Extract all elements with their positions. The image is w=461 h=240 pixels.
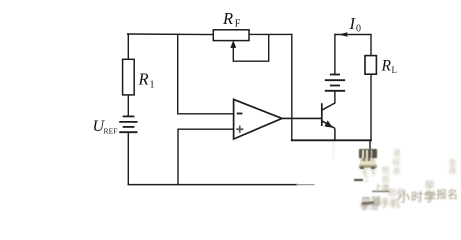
wire top rail left	[128, 33, 214, 36]
resistor RL	[365, 56, 376, 75]
svg-text:REF: REF	[104, 126, 118, 135]
svg-text:1: 1	[150, 80, 155, 91]
current I0 arrowhead	[339, 32, 347, 36]
wire RL stub below emitter rail	[369, 140, 371, 148]
wire op-amp output to base	[282, 117, 321, 119]
svg-text:0: 0	[356, 24, 361, 35]
potentiometer RF body	[213, 30, 249, 41]
wire noninverting input riser	[178, 129, 234, 184]
wire bottom rail faded end	[297, 184, 314, 186]
watermark smudge marks	[331, 142, 334, 164]
wire R1 top lead	[127, 34, 129, 59]
wire battery top lead	[334, 35, 336, 75]
svg-text:R: R	[222, 9, 233, 28]
potentiometer RF wiper arrow	[231, 35, 269, 61]
svg-text:R: R	[381, 58, 392, 75]
wire emitter rail	[292, 139, 371, 141]
transistor emitter arrowhead	[325, 121, 333, 128]
resistor R1	[123, 59, 135, 95]
op-amp minus sign	[237, 113, 243, 115]
wire battery to bottom rail	[127, 132, 129, 184]
battery V (collector supply)	[325, 75, 345, 91]
wire inverting input drop	[178, 34, 234, 113]
wire R_F right lead	[249, 33, 292, 35]
wire RL bottom lead	[370, 74, 372, 140]
wire R1 bottom lead	[127, 95, 129, 115]
op-amp U1	[234, 99, 282, 139]
wire collector to battery	[334, 91, 336, 103]
wire feedback vertical	[291, 34, 293, 140]
wire bottom rail	[128, 184, 297, 186]
svg-text:F: F	[235, 18, 241, 29]
wire I0 top rail	[335, 35, 371, 56]
op-amp plus sign	[236, 126, 243, 133]
svg-text:L: L	[392, 65, 398, 75]
watermark logo block	[359, 148, 377, 169]
transistor Q1	[322, 103, 335, 140]
battery U_REF	[119, 114, 137, 132]
svg-text:R: R	[138, 70, 149, 89]
